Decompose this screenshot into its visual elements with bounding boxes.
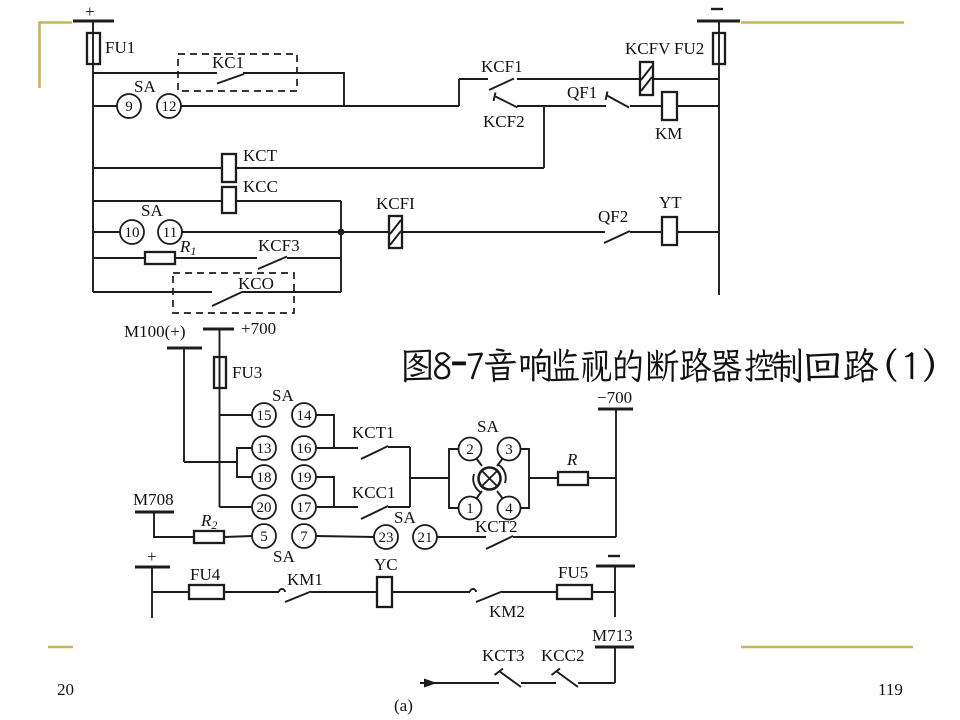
svg-text:KC1: KC1 [212,53,244,72]
wire row1 left [93,72,217,74]
svg-text:KCO: KCO [238,274,274,293]
wire 7 to 23 [316,536,374,537]
SA terminal 15 [252,403,276,427]
wire row7 [93,291,212,293]
svg-text:YC: YC [374,555,398,574]
SA terminal 10 [120,220,144,244]
SA terminal 4 [498,497,521,520]
wire row5 [93,231,120,233]
wire row6 [93,257,145,259]
wire row2 to SA contacts [93,105,117,107]
SA terminal 14 [292,403,316,427]
svg-text:QF1: QF1 [567,83,597,102]
coil KCC [222,187,236,213]
node +700 [203,328,234,331]
svg-text:SA: SA [273,547,295,566]
svg-text:16: 16 [297,441,313,457]
svg-text:KCFV: KCFV [625,39,671,58]
svg-text:14: 14 [297,408,313,424]
svg-text:10: 10 [125,225,140,241]
svg-text:KM2: KM2 [489,602,525,621]
svg-text:KCFI: KCFI [376,194,415,213]
SA terminal 3 [498,438,521,461]
svg-text:KCF2: KCF2 [483,112,525,131]
wire row4 [93,200,341,202]
svg-text:M100(+): M100(+) [124,322,186,341]
resistor R1 [145,252,175,264]
lamp right bracket [521,449,529,508]
wire row2 [181,105,459,107]
wire row1 right [243,73,344,106]
SA terminal 21 [413,525,437,549]
svg-text:R: R [566,450,578,469]
SA terminal 19 [292,465,316,489]
svg-text:20: 20 [57,680,74,699]
svg-text:+: + [85,2,95,21]
contact blade KC1 [217,74,244,84]
SA terminal 9 [117,94,141,118]
svg-text:FU2: FU2 [674,39,704,58]
left bus wire [92,21,94,292]
right bus wire [718,21,720,295]
junction node [338,229,345,236]
svg-text:FU4: FU4 [190,565,221,584]
lamp HL [479,468,501,490]
svg-text:QF2: QF2 [598,207,628,226]
wire row4 to row7 drop [340,201,342,292]
wire lamp to R [529,477,558,479]
svg-text:23: 23 [379,530,394,546]
node KCF branch [458,79,460,106]
riser between KCT1 and KCC1 [409,447,411,507]
SA terminal 1 [459,497,482,520]
wire to terminal 20 [220,506,253,508]
bracket 19/17 [316,477,334,507]
arrow [424,679,437,688]
svg-text:2: 2 [466,442,474,458]
wire row5 to QF2 [402,231,605,233]
SA terminal 13 [252,436,276,460]
wire KM to bus [677,105,719,107]
title 图8-7音响监视的断路器控制回路（1） [404,348,935,383]
svg-text:SA: SA [272,386,294,405]
svg-text:FU1: FU1 [105,38,135,57]
svg-text:KCF3: KCF3 [258,236,300,255]
svg-text:19: 19 [297,470,312,486]
wire M100 to 13/18 bracket [184,461,237,463]
svg-text:−700: −700 [597,388,632,407]
svg-text:KCT: KCT [243,146,278,165]
svg-text:18: 18 [257,470,272,486]
relay contact KCO (dashed box) [173,273,294,313]
svg-text:SA: SA [141,201,163,220]
relay contact KC1 (dashed box) [178,54,297,91]
svg-text:SA: SA [394,508,416,527]
svg-text:KM: KM [655,124,682,143]
svg-text:12: 12 [162,99,177,115]
svg-text:KCT1: KCT1 [352,423,395,442]
fuse FU3 [219,329,221,415]
svg-text:4: 4 [505,501,513,517]
lamp left bracket [449,449,458,508]
wire bottom row [152,591,189,593]
svg-text:KCC2: KCC2 [541,646,584,665]
svg-text:(a): (a) [394,696,413,715]
svg-text:7: 7 [300,529,308,545]
battery negative terminal top-right [711,8,723,10]
bracket 14/16 [316,415,334,448]
lamp terminal links [476,458,482,466]
SA terminal 2 [459,438,482,461]
fuse FU4 [189,585,224,599]
SA terminal 20 [252,495,276,519]
svg-text:119: 119 [878,680,903,699]
svg-text:M708: M708 [133,490,174,509]
svg-text:KCT3: KCT3 [482,646,525,665]
svg-text:1: 1 [466,501,474,517]
wire to lamp [410,477,449,479]
wire row5 [182,231,389,233]
SA terminal 7 [292,524,316,548]
svg-text:21: 21 [418,530,433,546]
svg-text:3: 3 [505,442,513,458]
SA terminal 16 [292,436,316,460]
svg-text:YT: YT [659,193,682,212]
SA terminal 12 [157,94,181,118]
wire KCFV to bus [653,78,719,80]
svg-text:KCC: KCC [243,177,278,196]
wire to KCFV [517,78,640,80]
wire FU3 down to terminal 20 [219,415,221,507]
svg-text:KCF1: KCF1 [481,57,523,76]
SA terminal 11 [158,220,182,244]
coil KCT [222,154,236,182]
wire QF2 to YT [630,231,662,233]
SA terminal 23 [374,525,398,549]
wire row3 [93,167,544,169]
coil KM [662,92,677,120]
svg-text:13: 13 [257,441,272,457]
wire to terminal 15 [220,414,253,416]
svg-text:11: 11 [163,225,177,241]
svg-text:FU5: FU5 [558,563,588,582]
svg-text:15: 15 [257,408,272,424]
svg-text:5: 5 [260,529,268,545]
wire row3 riser [543,106,545,168]
svg-text:M713: M713 [592,626,633,645]
SA terminal 18 [252,465,276,489]
svg-text:9: 9 [125,99,133,115]
svg-text:+: + [147,547,157,566]
wire YT to bus [677,231,719,233]
wire bottom-most row [420,682,499,684]
svg-text:SA: SA [477,417,499,436]
fuse FU1 [87,33,100,64]
svg-text:SA: SA [134,77,156,96]
svg-text:FU3: FU3 [232,363,262,382]
svg-text:17: 17 [297,500,313,516]
svg-text:KCT2: KCT2 [475,517,518,536]
contact KM2 [470,589,476,592]
battery negative terminal bottom [608,555,620,557]
SA terminal 17 [292,495,316,519]
SA terminal 5 [252,524,276,548]
svg-text:+700: +700 [241,319,276,338]
svg-text:KCC1: KCC1 [352,483,395,502]
svg-text:KM1: KM1 [287,570,323,589]
lamp socket arcs [473,474,480,492]
contact KCT2 [437,536,486,538]
svg-text:20: 20 [257,500,272,516]
